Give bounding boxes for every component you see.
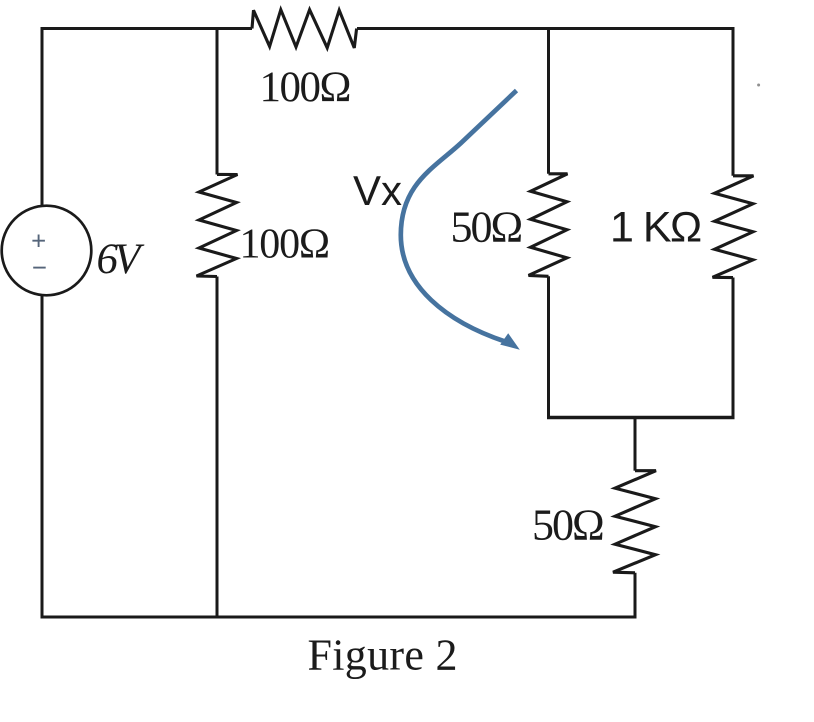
resistor R4 1Kohm vertical: [713, 176, 754, 278]
svg-text:50Ω: 50Ω: [451, 203, 522, 252]
wire: middle branch upper segment: [216, 29, 219, 175]
wire: left vertical below source: [41, 294, 44, 617]
wire: bottom of parallel pair: [547, 416, 735, 420]
svg-text:Figure 2: Figure 2: [308, 631, 458, 680]
svg-text:1 KΩ: 1 KΩ: [610, 204, 701, 252]
svg-text:100Ω: 100Ω: [260, 64, 350, 111]
wire: right branch lower segment: [732, 278, 735, 417]
wire: 50ohm branch lower segment: [547, 276, 550, 416]
annotation: Vx blue curved arrow: [401, 91, 520, 350]
wire: 50ohm branch upper segment: [547, 29, 550, 174]
resistor R3 50ohm vertical: [529, 174, 568, 276]
wire: middle branch lower segment: [216, 277, 219, 618]
svg-text:100Ω: 100Ω: [240, 222, 329, 268]
wire: stub from parallel pair down to bottom resistor: [634, 418, 637, 471]
svg-text:Vx: Vx: [353, 167, 402, 214]
svg-text:6V: 6V: [97, 236, 146, 283]
resistor R1 100ohm horizontal top: [252, 10, 357, 48]
resistor R2 100ohm vertical middle: [197, 174, 238, 276]
wire: left vertical (source top) + top-left horizontal run: [42, 29, 252, 206]
voltage source V1 6V: [2, 206, 92, 296]
resistor R5 50ohm bottom: [613, 471, 656, 573]
wire: top-right horizontal run + right branch drop: [357, 29, 733, 176]
wire: bottom rail + left return: [42, 294, 635, 617]
svg-text:50Ω: 50Ω: [532, 501, 603, 550]
